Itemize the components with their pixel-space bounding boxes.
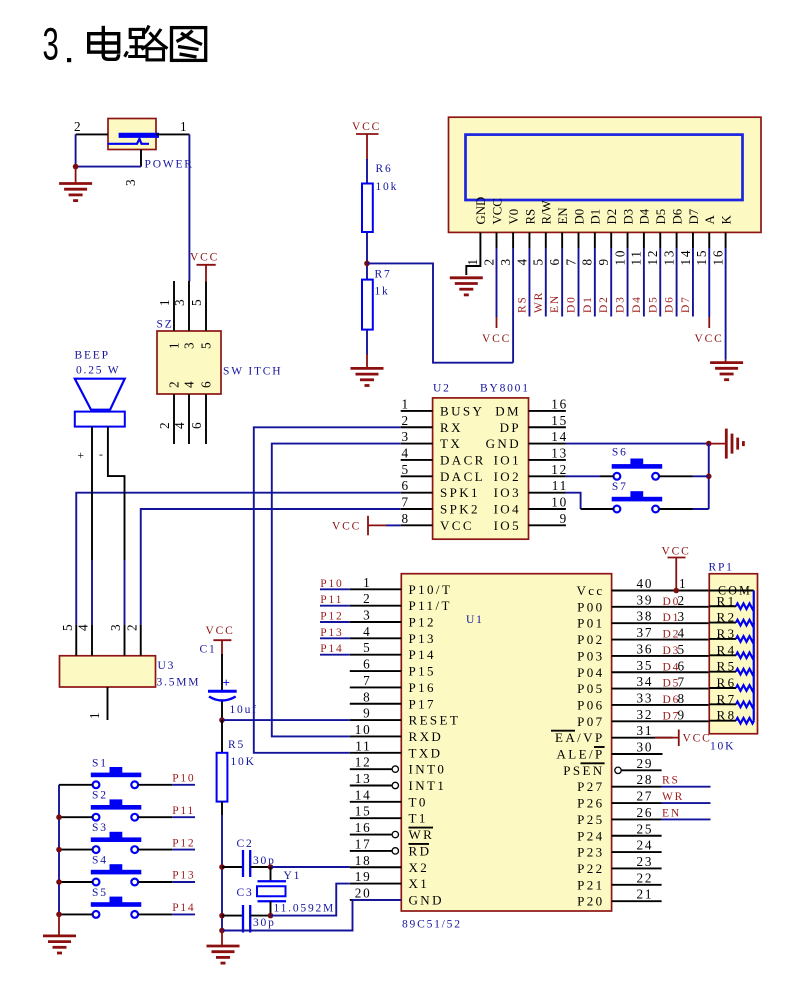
U2 pin 7 SPK2 [401, 508, 433, 510]
ground (main) [207, 931, 240, 964]
RP1 common bus [753, 591, 755, 721]
wire rail to S4 [59, 881, 93, 883]
ground [59, 167, 92, 201]
svg-text:GND: GND [474, 197, 488, 225]
svg-text:6: 6 [678, 658, 686, 673]
speaker BEEP 0.25W [75, 350, 125, 427]
svg-text:15: 15 [551, 413, 568, 428]
svg-text:RS: RS [662, 775, 680, 787]
U1 pin 5 P14 [350, 654, 402, 656]
svg-text:2: 2 [402, 413, 410, 428]
IC U1 89C51/52 body [401, 574, 611, 931]
U3 pin 2 [140, 625, 142, 656]
svg-text:10: 10 [355, 722, 372, 737]
svg-text:25: 25 [637, 821, 654, 836]
svg-text:BY8001: BY8001 [480, 383, 530, 395]
LCD pin3 wire V0 [512, 232, 514, 248]
svg-text:T1: T1 [409, 811, 428, 826]
svg-text:R8: R8 [717, 708, 737, 723]
U3 pin 4 [91, 625, 93, 656]
svg-text:9: 9 [678, 707, 686, 722]
LCD pin 8 wire, net D1 [594, 232, 596, 248]
U1 pin 15 T1 [350, 817, 402, 819]
svg-text:S5: S5 [92, 887, 108, 899]
svg-text:24: 24 [637, 838, 654, 853]
junction [73, 164, 79, 170]
wire rail to S2 [59, 816, 93, 818]
LCD pin16 wire K to ground [725, 232, 727, 248]
svg-text:5: 5 [678, 642, 686, 657]
svg-text:8: 8 [363, 689, 371, 704]
svg-text:1: 1 [157, 298, 172, 306]
wire U2.SPK2 to U3 pin2 [141, 509, 401, 625]
svg-text:SW ITCH: SW ITCH [223, 366, 282, 378]
svg-text:P16: P16 [409, 680, 436, 695]
svg-text:R6: R6 [376, 163, 393, 175]
svg-text:12: 12 [551, 462, 568, 477]
U1 pin 19 X1 [350, 883, 402, 885]
svg-text:1: 1 [465, 257, 480, 265]
RP1 resistor R2 [709, 610, 754, 626]
svg-text:1: 1 [363, 575, 371, 590]
svg-text:4: 4 [678, 626, 686, 641]
pushbutton S6 [612, 447, 663, 480]
U2 pin 3 TX [401, 443, 433, 445]
svg-text:S1: S1 [92, 757, 108, 769]
svg-text:C1: C1 [200, 644, 217, 656]
svg-text:RESET: RESET [409, 713, 461, 728]
wire U2.SPK1 to U3 pin5 [76, 493, 400, 625]
svg-text:R5: R5 [717, 659, 737, 674]
svg-text:2: 2 [363, 591, 371, 606]
svg-text:EN: EN [662, 807, 681, 819]
svg-text:TXD: TXD [409, 745, 443, 760]
svg-text:Y1: Y1 [284, 870, 302, 882]
power port VCC at C1 [206, 625, 235, 655]
wire R6 to R7 [366, 232, 368, 280]
svg-text:P06: P06 [577, 697, 604, 712]
svg-text:S4: S4 [92, 855, 108, 867]
U1 pin 13 INT1 [350, 785, 392, 787]
svg-text:3: 3 [43, 19, 61, 70]
resistor network RP1 body [709, 562, 758, 753]
power port VCC at SZ pin5 [190, 252, 219, 283]
U1 pin 26 P25 [612, 818, 662, 820]
SZ pin 4 bottom [188, 394, 190, 444]
power port VCC (top of R6) [352, 121, 381, 160]
U1 pin 7 P16 [350, 686, 402, 688]
svg-text:10: 10 [612, 249, 627, 266]
svg-text:P10/T: P10/T [409, 582, 453, 597]
svg-text:P25: P25 [577, 812, 604, 827]
svg-text:32: 32 [637, 707, 654, 722]
U2 pin 13 IO1 [529, 459, 566, 461]
svg-text:10K: 10K [231, 756, 256, 768]
svg-text:11.0592M: 11.0592M [274, 903, 336, 915]
svg-text:D0: D0 [572, 209, 586, 225]
svg-text:14: 14 [355, 787, 372, 802]
resistor R6 10k [362, 163, 398, 232]
svg-text:IO2: IO2 [494, 469, 521, 484]
SZ pin 5 top [205, 281, 207, 331]
svg-text:EN: EN [549, 294, 561, 313]
svg-text:P11: P11 [320, 594, 343, 606]
svg-text:P14: P14 [320, 643, 343, 655]
svg-text:-: - [99, 449, 105, 461]
svg-text:3: 3 [498, 257, 513, 265]
wire/net P12 at S3 [139, 849, 173, 851]
svg-text:GND: GND [486, 436, 521, 451]
BEEP + wire to U3 pin4 [91, 427, 93, 560]
svg-text:40: 40 [637, 576, 654, 591]
svg-text:P12: P12 [320, 611, 343, 623]
U1 pin 33 P06 [612, 704, 710, 706]
svg-text:26: 26 [637, 805, 654, 820]
U1 pin 1 P10/T [350, 588, 402, 590]
svg-text:R4: R4 [717, 642, 737, 657]
LCD pin 5 wire, net WR [545, 232, 547, 248]
svg-text:D1: D1 [582, 295, 594, 313]
svg-text:WR: WR [662, 791, 684, 803]
svg-text:1: 1 [180, 119, 188, 134]
RP1 resistor R8 [709, 708, 754, 724]
LCD pin 12 wire, net D5 [659, 232, 661, 248]
svg-text:R1: R1 [717, 593, 737, 608]
svg-text:13: 13 [551, 445, 568, 460]
svg-text:36: 36 [637, 641, 654, 656]
SZ pin 6 bottom [205, 394, 207, 444]
BEEP - wire to U3 pin3 [108, 427, 125, 560]
LCD pin 11 wire, net D4 [643, 232, 645, 248]
junction [268, 864, 274, 870]
svg-text:9: 9 [560, 511, 568, 526]
U1 pin 29 PSEN [615, 767, 621, 773]
svg-text:R5: R5 [228, 739, 245, 751]
wire/net WR at U1 pin 27 [662, 802, 711, 804]
wire/net P14 at S5 [139, 913, 173, 915]
svg-text:18: 18 [355, 853, 372, 868]
LCD pin2 wire [496, 232, 498, 248]
pushbutton S7 [612, 481, 663, 512]
U1 pin 18 X2 [350, 866, 402, 868]
LCD pin 6 wire, net EN [561, 232, 563, 248]
svg-text:5: 5 [60, 623, 75, 631]
svg-text:C3: C3 [237, 887, 254, 899]
svg-text:D1: D1 [589, 209, 603, 225]
svg-text:30p: 30p [253, 917, 276, 929]
svg-text:4: 4 [363, 624, 371, 639]
power port VCC [482, 317, 511, 345]
svg-text:1: 1 [402, 396, 410, 411]
wire U2.GND(pin14) to ground [566, 443, 709, 445]
svg-text:3: 3 [123, 178, 138, 186]
RP1 resistor R5 [709, 659, 754, 675]
wire/net P10 at U1 pin 1 [320, 588, 350, 590]
wire [386, 524, 401, 526]
svg-text:10k: 10k [376, 181, 399, 193]
svg-text:VCC: VCC [440, 518, 474, 533]
RP1 resistor R3 [709, 626, 754, 642]
svg-text:D2: D2 [605, 209, 619, 225]
wire/net RS at U1 pin 28 [662, 786, 711, 788]
svg-text:22: 22 [637, 870, 654, 885]
svg-text:5: 5 [189, 298, 204, 306]
U3 pin 5 [75, 625, 77, 656]
svg-text:DM: DM [495, 403, 521, 418]
U2 pin 6 SPK1 [401, 492, 433, 494]
U1 pin 38 P01 [612, 622, 710, 624]
U1 pin 28 P27 [612, 786, 662, 788]
svg-text:10: 10 [551, 495, 568, 510]
svg-text:29: 29 [637, 756, 654, 771]
LCD pin15 wire A [708, 232, 710, 248]
svg-text:R7: R7 [375, 269, 392, 281]
svg-text:8: 8 [678, 691, 686, 706]
svg-text:11: 11 [552, 478, 568, 493]
svg-text:POWER: POWER [145, 159, 194, 171]
svg-text:5: 5 [402, 462, 410, 477]
U2 pin 5 DACL [401, 475, 433, 477]
U1 pin 34 P05 [612, 688, 710, 690]
wire divider to LCD V0 [367, 263, 513, 362]
wire/net P12 at U1 pin 3 [320, 621, 350, 623]
capacitor C2 30p [222, 838, 276, 877]
wire rail to S5 [59, 913, 93, 915]
svg-text:9: 9 [363, 706, 371, 721]
pushbutton S4 [91, 855, 142, 886]
LCD pin 14 wire, net D7 [692, 232, 694, 248]
U2 pin 14 GND [529, 443, 566, 445]
wire/net P13 at U1 pin 4 [320, 637, 350, 639]
svg-text:IO3: IO3 [494, 485, 521, 500]
svg-text:K: K [719, 215, 733, 225]
RP1 resistor R4 [709, 642, 754, 658]
svg-text:D4: D4 [631, 295, 643, 313]
U2 pin 1 BUSY [401, 410, 433, 412]
svg-text:D4: D4 [638, 208, 652, 224]
svg-text:EA/VP: EA/VP [555, 730, 605, 745]
pushbutton S1 [91, 757, 142, 788]
svg-text:15: 15 [694, 249, 709, 266]
ground (key rail) [43, 914, 76, 953]
svg-text:DACR: DACR [440, 452, 486, 467]
U2 pin 12 IO2 [529, 475, 566, 477]
LCD pin 9 wire, net D2 [610, 232, 612, 248]
svg-text:16: 16 [355, 820, 372, 835]
U2 pin 2 RX [401, 426, 433, 428]
U1 pin 22 P21 [612, 884, 662, 886]
svg-text:VCC: VCC [695, 333, 724, 345]
svg-text:6: 6 [189, 421, 204, 429]
svg-text:INT1: INT1 [409, 778, 447, 793]
svg-text:IO4: IO4 [494, 502, 521, 517]
svg-text:PSEN: PSEN [563, 763, 604, 778]
power port VCC at U1 pin40 / RP1 COM [662, 546, 691, 594]
LCD pin 7 wire, net D0 [578, 232, 580, 248]
U1 pin 24 P23 [612, 851, 662, 853]
svg-text:S6: S6 [612, 447, 628, 459]
RP1 resistor R1 [709, 593, 754, 609]
svg-text:D6: D6 [664, 295, 676, 313]
U1 pin 36 P03 [612, 655, 710, 657]
svg-text:7: 7 [678, 675, 686, 690]
LCD pin1 wire to ground [466, 232, 480, 275]
U1 pin 27 P26 [612, 802, 662, 804]
svg-text:P12: P12 [172, 837, 195, 849]
svg-text:17: 17 [355, 836, 372, 851]
wire U2.RX to U1.TXD [254, 427, 401, 753]
svg-text:D7: D7 [680, 295, 692, 313]
svg-text:5: 5 [363, 640, 371, 655]
svg-text:28: 28 [637, 772, 654, 787]
power port VCC [695, 317, 724, 345]
U1 pin 23 P22 [612, 867, 662, 869]
capacitor C1 10uf [200, 644, 258, 721]
U1 pin 4 P13 [350, 637, 402, 639]
svg-text:D3: D3 [621, 209, 635, 225]
svg-text:3: 3 [182, 341, 197, 349]
wire/net P13 at S4 [139, 881, 173, 883]
svg-text:6: 6 [199, 380, 214, 388]
junction [268, 913, 274, 919]
U1 pin 32 P07 [612, 720, 710, 722]
svg-text:2: 2 [74, 119, 82, 134]
U2 pin 16 DM [529, 410, 566, 412]
svg-text:P02: P02 [577, 632, 604, 647]
RP1 COM pin [709, 590, 754, 592]
U1 pin 6 P15 [350, 670, 402, 672]
svg-text:4: 4 [76, 623, 91, 631]
svg-text:BEEP: BEEP [75, 350, 110, 362]
wire C2 to U1.X2 [271, 866, 350, 868]
svg-text:P17: P17 [409, 696, 436, 711]
svg-text:P00: P00 [577, 599, 604, 614]
wire/net P11 at U1 pin 2 [320, 605, 350, 607]
svg-text:P01: P01 [577, 616, 604, 631]
power port VCC at U2 pin8 [332, 516, 386, 536]
ground [710, 360, 743, 380]
svg-text:9: 9 [596, 257, 611, 265]
svg-text:P14: P14 [172, 902, 195, 914]
U1 pin 35 P04 [612, 671, 710, 673]
svg-text:10K: 10K [710, 741, 735, 753]
svg-text:TX: TX [440, 436, 462, 451]
svg-text:1: 1 [167, 341, 182, 349]
svg-text:VCC: VCC [206, 625, 235, 637]
svg-text:2: 2 [482, 257, 497, 265]
LCD pin 13 wire, net D6 [676, 232, 678, 248]
svg-text:VCC: VCC [332, 521, 361, 533]
U1 pin 16 WR [350, 834, 392, 836]
svg-text:P05: P05 [577, 681, 604, 696]
wire rail to S1 [59, 784, 93, 786]
switch SZ body [157, 319, 283, 395]
ground [450, 276, 483, 279]
U3 pin 1 [107, 687, 109, 720]
svg-text:1k: 1k [375, 286, 390, 298]
wire U2.IO3(pin11) to S7 [566, 493, 581, 509]
svg-text:P21: P21 [577, 877, 604, 892]
svg-text:P11: P11 [172, 805, 195, 817]
svg-text:7: 7 [363, 673, 371, 688]
svg-text:RS: RS [516, 295, 528, 313]
svg-text:6: 6 [547, 257, 562, 265]
svg-text:4: 4 [402, 445, 410, 460]
svg-text:S7: S7 [612, 481, 628, 493]
pin 1 of POWER [156, 133, 189, 135]
svg-text:3: 3 [172, 298, 187, 306]
ground [351, 354, 384, 386]
wire R5 down the bus [221, 815, 223, 931]
pushbutton S2 [91, 790, 142, 821]
wire rail to S3 [59, 849, 93, 851]
svg-text:X2: X2 [409, 860, 430, 875]
svg-text:X1: X1 [409, 876, 430, 891]
pin 3 of POWER [140, 150, 142, 167]
svg-text:34: 34 [637, 674, 654, 689]
svg-text:D7: D7 [687, 208, 701, 224]
pushbutton S3 [91, 822, 142, 853]
svg-text:3: 3 [108, 623, 123, 631]
ground (right-facing) [709, 429, 744, 459]
RP1 resistor R6 [709, 675, 754, 691]
svg-text:D6: D6 [670, 208, 684, 224]
U3 pin 3 [124, 625, 126, 656]
svg-text:VCC: VCC [482, 333, 511, 345]
svg-text:31: 31 [637, 723, 654, 738]
svg-text:P10: P10 [172, 773, 195, 785]
wire R7 to ground [366, 330, 368, 355]
U1 pin 37 P02 [612, 639, 710, 641]
svg-text:P13: P13 [409, 631, 436, 646]
title "3. 电路图" [43, 19, 206, 70]
svg-text:T0: T0 [409, 794, 428, 809]
svg-text:13: 13 [661, 249, 676, 266]
svg-text:3: 3 [678, 609, 686, 624]
svg-text:P22: P22 [577, 861, 604, 876]
svg-text:+: + [223, 675, 232, 690]
svg-text:12: 12 [645, 249, 660, 266]
svg-text:SZ: SZ [157, 319, 174, 331]
svg-text:GND: GND [409, 892, 444, 907]
pushbutton S5 [91, 887, 142, 918]
wire S6 to gnd rail [659, 475, 693, 477]
svg-text:15: 15 [355, 804, 372, 819]
svg-text:S3: S3 [92, 822, 108, 834]
svg-text:D3: D3 [615, 295, 627, 313]
svg-text:SPK2: SPK2 [440, 502, 480, 517]
svg-text:V0: V0 [507, 209, 521, 225]
svg-text:4: 4 [514, 257, 529, 265]
svg-text:P11/T: P11/T [409, 598, 452, 613]
wire/net P10 at S1 [139, 784, 173, 786]
svg-text:P26: P26 [577, 796, 604, 811]
IC U2 BY8001 body [433, 383, 530, 540]
svg-text:P10: P10 [320, 578, 343, 590]
wire/net EN at U1 pin 26 [662, 818, 711, 820]
svg-text:13: 13 [355, 771, 372, 786]
U1 pin 8 P17 [350, 703, 402, 705]
svg-text:3.5MM: 3.5MM [157, 677, 201, 689]
junction C1/RESET [219, 717, 225, 723]
U1 pin 20 GND [350, 899, 402, 901]
wire/net P14 at U1 pin 5 [320, 654, 350, 656]
node: divider junction [364, 261, 370, 267]
wire POWER pin2 to ground [76, 134, 141, 166]
svg-text:U3: U3 [158, 660, 176, 672]
wire S7 to gnd rail [659, 508, 693, 510]
U1 pin 25 P24 [612, 835, 662, 837]
